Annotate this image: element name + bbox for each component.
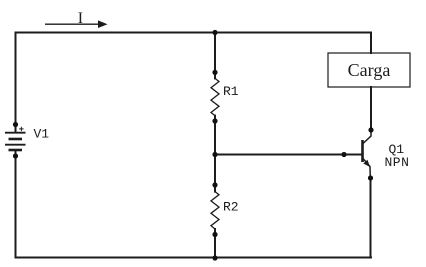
svg-text:NPN: NPN [385, 155, 410, 170]
node R1 top terminal [212, 70, 217, 75]
transistor Q1 [363, 130, 372, 178]
node R2 top terminal [212, 182, 217, 187]
svg-text:R1: R1 [223, 84, 239, 99]
node top-middle junction [212, 30, 217, 35]
wire emitter to bottom [370, 178, 372, 258]
node R2 bottom terminal [212, 232, 217, 237]
wire middle vertical between R1 and R2 [214, 116, 216, 192]
wire bottom horizontal [16, 257, 372, 259]
resistor R1 [211, 78, 219, 115]
node base wire dot [341, 152, 346, 157]
resistor R2 [211, 192, 219, 229]
wire base horizontal (node to Q1 base) [215, 154, 362, 156]
wire left vertical upper (to battery) [15, 33, 17, 133]
node collector dot [368, 127, 373, 132]
node R1 bottom terminal [212, 118, 217, 123]
Carga box [328, 53, 410, 87]
svg-text:Carga: Carga [348, 60, 391, 80]
wire middle vertical upper (top to R1) [214, 33, 216, 79]
node bottom-middle junction [212, 255, 217, 260]
node battery top terminal [13, 122, 18, 127]
wire middle vertical lower (R2 to bottom) [214, 229, 216, 258]
svg-text:R2: R2 [223, 200, 239, 215]
svg-text:V1: V1 [34, 127, 50, 142]
battery V1 [5, 127, 26, 150]
wire Carga to collector [370, 87, 372, 130]
svg-text:I: I [78, 10, 83, 27]
wire top horizontal [16, 32, 372, 34]
node emitter dot [368, 175, 373, 180]
node base junction [212, 152, 217, 157]
node battery bottom terminal [13, 153, 18, 158]
current arrow [45, 20, 108, 28]
wire left vertical lower (battery to bottom) [15, 150, 17, 258]
wire right vertical top (to Carga) [370, 33, 372, 54]
